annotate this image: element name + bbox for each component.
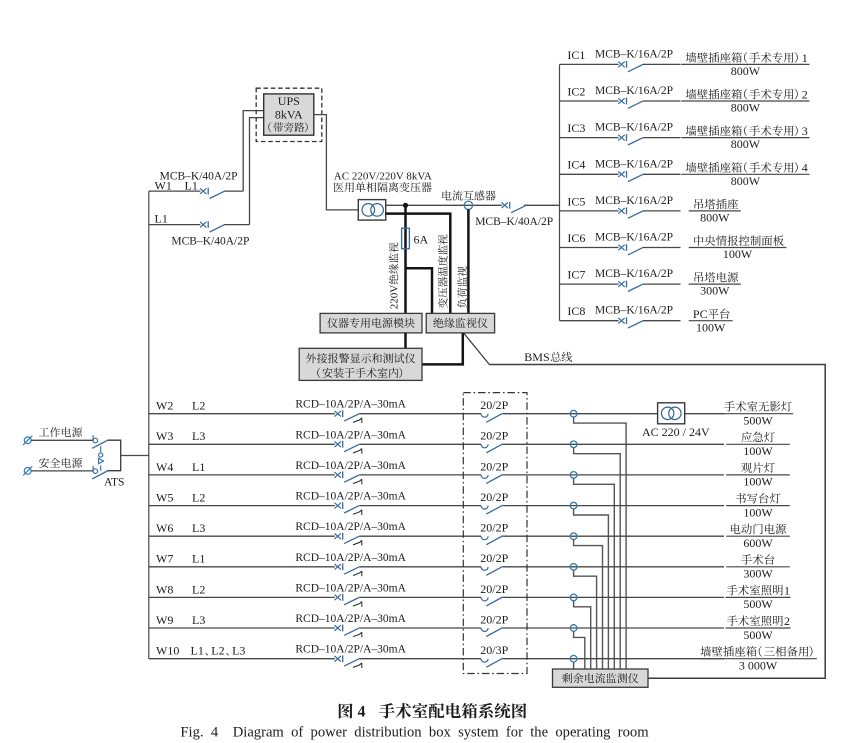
svg-text:AC 220 / 24V: AC 220 / 24V <box>642 425 710 439</box>
breaker Q1 MCB-K/40A/2P on W1 <box>200 188 225 199</box>
label RCD-10A/2P/A-30mA (W10) <box>295 644 406 656</box>
label IC8 <box>567 304 585 318</box>
label 安全电源 <box>39 458 82 468</box>
label W6 <box>156 521 173 535</box>
terminal node W7 <box>570 564 577 571</box>
wire W3 row <box>149 443 724 445</box>
svg-text:RCD–10A/2P/A–30mA: RCD–10A/2P/A–30mA <box>295 521 406 533</box>
terminal node W9 <box>570 625 577 632</box>
wire W6 row <box>149 535 724 537</box>
junction node on 220V feed <box>403 203 408 208</box>
wire W9 row <box>149 627 724 629</box>
label IC1 <box>567 48 585 62</box>
label RCD-10A/2P/A-30mA (W3) <box>295 429 406 441</box>
load label IC2 墙壁插座箱（手术专用）2 <box>686 87 808 101</box>
svg-text:6A: 6A <box>414 233 429 247</box>
wire load underline W8 <box>726 596 791 598</box>
wire load underline W2 <box>723 413 793 415</box>
switch W4 20/2P <box>481 475 503 484</box>
svg-text:RCD–10A/2P/A–30mA: RCD–10A/2P/A–30mA <box>295 491 406 503</box>
label phase L2 (W8) <box>192 582 205 596</box>
label AC 220 / 24V <box>642 425 710 439</box>
wire insulation-monitor tap to monitor box <box>406 268 433 313</box>
svg-text:W2: W2 <box>156 399 173 413</box>
label 20/2P (W3) <box>480 429 508 443</box>
switch ATS changeover body <box>108 440 121 471</box>
label 6A <box>414 233 429 247</box>
load label W4 观片灯 <box>741 462 774 472</box>
svg-text:20/3P: 20/3P <box>480 643 508 657</box>
label RCD-10A/2P/A-30mA (W7) <box>295 552 406 564</box>
svg-text:L2: L2 <box>192 491 205 505</box>
value label 800W (IC3) <box>731 137 761 151</box>
load label W7 手术台 <box>741 554 774 564</box>
svg-text:20/2P: 20/2P <box>480 612 508 626</box>
svg-text:RCD–10A/2P/A–30mA: RCD–10A/2P/A–30mA <box>295 644 406 656</box>
wire L1 branch from bus to UPS riser <box>149 118 264 225</box>
svg-text:RCD–10A/2P/A–30mA: RCD–10A/2P/A–30mA <box>295 613 406 625</box>
svg-text:300W: 300W <box>700 284 730 298</box>
svg-text:800W: 800W <box>700 211 730 225</box>
svg-text:100W: 100W <box>696 320 726 334</box>
wire IC7 row <box>560 283 681 285</box>
wire load underline IC1 <box>681 63 809 65</box>
transformer T2 winding circles <box>662 407 682 419</box>
label W2 <box>156 399 173 413</box>
breaker Q2 MCB-K/40A/2P on L1 <box>200 221 225 232</box>
svg-text:MCB–K/16A/2P: MCB–K/16A/2P <box>595 85 673 97</box>
load label IC1 墙壁插座箱（手术专用）1 <box>686 51 808 65</box>
wire ATS output to W bus <box>121 455 149 457</box>
svg-text:20/2P: 20/2P <box>480 582 508 596</box>
wire main 220V feed from transformer to IC bus <box>386 204 560 206</box>
wire W10 to residual current monitor <box>573 662 575 669</box>
label L1 lower branch <box>155 211 168 225</box>
wire transformer temperature monitor line <box>386 214 451 314</box>
switch W10 20/3P <box>481 658 503 667</box>
svg-text:L1: L1 <box>192 460 205 474</box>
svg-text:RCD–10A/2P/A–30mA: RCD–10A/2P/A–30mA <box>295 460 406 472</box>
label RCD-10A/2P/A-30mA (W9) <box>295 613 406 625</box>
boundary dash-dot box of 20/2P switches <box>463 393 527 674</box>
svg-text:IC1: IC1 <box>567 48 585 62</box>
value label 800W (IC1) <box>731 64 761 78</box>
svg-text:100W: 100W <box>743 444 773 458</box>
load label IC8 PC平台 <box>693 307 730 321</box>
wire IC2 row <box>560 100 681 102</box>
label BMS总线 <box>524 350 572 364</box>
svg-text:L1: L1 <box>192 552 205 566</box>
load label W8 手术室照明1 <box>727 583 790 597</box>
svg-text:W6: W6 <box>156 521 173 535</box>
svg-text:W7: W7 <box>156 552 173 566</box>
value label 500W (W8) <box>743 597 773 611</box>
svg-text:RCD–10A/2P/A–30mA: RCD–10A/2P/A–30mA <box>295 582 406 594</box>
svg-text:W8: W8 <box>156 582 173 596</box>
svg-text:L2: L2 <box>192 399 205 413</box>
value label 100W (W4) <box>743 475 773 489</box>
wire load underline W10 <box>699 658 817 660</box>
svg-text:Fig. 4 Diagram of power: Fig. 4 Diagram of power distribution box… <box>180 724 649 740</box>
breaker Q3 MCB-K/40A/2P main <box>502 202 527 213</box>
svg-text:MCB–K/16A/2P: MCB–K/16A/2P <box>595 232 673 244</box>
switch W5 20/2P <box>481 505 503 514</box>
label 20/2P (W2) <box>480 398 508 412</box>
label W3 <box>156 429 173 443</box>
label MCB-K/16A/2P (IC5) <box>595 195 673 207</box>
label MCB-K/16A/2P (IC3) <box>595 122 673 134</box>
svg-text:3: 3 <box>802 124 808 138</box>
breaker RCD W4 RCD-10A/2P/A-30mA <box>335 472 362 485</box>
label phase L1 (W4) <box>192 460 205 474</box>
value label 100W (W3) <box>743 444 773 458</box>
svg-text:600W: 600W <box>743 536 773 550</box>
load label W10 墙壁插座箱（三相备用） <box>701 646 813 657</box>
label 20/3P (W10) <box>480 643 508 657</box>
svg-text:L2: L2 <box>211 644 224 658</box>
wire W6 to residual current monitor <box>574 540 603 670</box>
svg-text:IC7: IC7 <box>567 268 585 282</box>
breaker IC8 MCB-K/16A/2P <box>618 317 643 328</box>
svg-text:L3: L3 <box>192 521 205 535</box>
caption 图 4 手术室配电箱系统图 <box>339 703 526 721</box>
breaker RCD W3 RCD-10A/2P/A-30mA <box>335 441 362 454</box>
load label W9 手术室照明2 <box>727 614 790 628</box>
breaker IC7 MCB-K/16A/2P <box>618 281 643 292</box>
value label 100W (IC6) <box>723 247 753 261</box>
label IC3 <box>567 121 585 135</box>
label W9 <box>156 613 173 627</box>
terminal node W6 <box>570 533 577 540</box>
svg-text:20/2P: 20/2P <box>480 551 508 565</box>
label 20/2P (W9) <box>480 612 508 626</box>
wire W7 row <box>149 566 724 568</box>
node IC distribution bus <box>559 64 561 320</box>
svg-text:W4: W4 <box>156 460 173 474</box>
box U4 外接报警显示和测试仪 <box>299 348 422 380</box>
breaker IC3 MCB-K/16A/2P <box>618 134 643 145</box>
terminal node W3 <box>570 441 577 448</box>
label W4 <box>156 460 173 474</box>
value label 800W (IC5) <box>700 211 730 225</box>
source 安全电源 terminal <box>23 466 32 475</box>
label MCB-K/16A/2P (IC8) <box>595 305 673 317</box>
load label IC6 中央情报控制面板 <box>694 235 784 246</box>
load label W6 电动门电源 <box>731 524 786 535</box>
switch W7 20/2P <box>481 566 503 575</box>
wire IC1 row <box>560 63 681 65</box>
svg-text:800W: 800W <box>731 101 761 115</box>
svg-text:MCB–K/40A/2P: MCB–K/40A/2P <box>475 216 553 228</box>
wire W2 row <box>149 413 724 415</box>
label MCB-K/16A/2P (IC1) <box>595 48 673 60</box>
svg-text:100W: 100W <box>743 475 773 489</box>
label 电流互感器 <box>442 190 495 200</box>
svg-text:1: 1 <box>802 51 808 65</box>
label phase L2 (W5) <box>192 491 205 505</box>
transformer T2 box (AC 220/24V) <box>658 403 685 424</box>
svg-text:UPS: UPS <box>278 94 300 108</box>
wire W4 row <box>149 474 724 476</box>
value label 500W (W2) <box>743 414 773 428</box>
svg-text:W1: W1 <box>155 179 172 193</box>
breaker IC5 MCB-K/16A/2P <box>618 208 643 219</box>
value label 300W (IC7) <box>700 284 730 298</box>
label MCB-K/40A/2P (W1) <box>160 170 238 182</box>
wire 220V monitor line with 6A fuse to power module <box>404 205 407 313</box>
svg-text:MCB–K/16A/2P: MCB–K/16A/2P <box>595 158 673 170</box>
wire load underline W4 <box>726 474 790 476</box>
value label 600W (W6) <box>743 536 773 550</box>
load label W5 书写台灯 <box>736 493 781 503</box>
caption Fig. 4 <box>180 724 649 740</box>
switch W3 20/2P <box>481 444 503 453</box>
node W distribution bus <box>148 191 150 659</box>
svg-text:L2: L2 <box>192 582 205 596</box>
load label IC7 吊塔电源 <box>695 272 739 282</box>
svg-text:300W: 300W <box>743 567 773 581</box>
svg-text:20/2P: 20/2P <box>480 490 508 504</box>
breaker RCD W10 RCD-10A/2P/A-30mA <box>335 655 362 668</box>
box U5 剩余电流监测仪 <box>553 669 649 687</box>
svg-text:W9: W9 <box>156 613 173 627</box>
label L1 phase of W1 <box>185 179 198 193</box>
svg-text:4: 4 <box>358 704 366 721</box>
svg-text:800W: 800W <box>731 137 761 151</box>
label IC4 <box>567 158 585 172</box>
wire load underline W7 <box>726 566 790 568</box>
svg-text:IC4: IC4 <box>567 158 585 172</box>
svg-text:2: 2 <box>802 87 808 101</box>
label IC7 <box>567 268 585 282</box>
svg-text:IC5: IC5 <box>567 194 585 208</box>
svg-text:L1: L1 <box>191 644 204 658</box>
transformer T1 winding circles <box>362 204 383 217</box>
svg-text:AC 220V/220V 8kVA: AC 220V/220V 8kVA <box>334 170 432 182</box>
svg-text:800W: 800W <box>731 64 761 78</box>
wire 安全电源 to ATS <box>31 470 93 472</box>
wire load underline IC7 <box>689 283 741 285</box>
wire W8 to residual current monitor <box>574 601 591 669</box>
svg-text:500W: 500W <box>743 628 773 642</box>
svg-text:L1: L1 <box>155 211 168 225</box>
wire W1 branch from bus to UPS riser <box>149 111 264 192</box>
svg-text:20/2P: 20/2P <box>480 521 508 535</box>
load label IC3 墙壁插座箱（手术专用）3 <box>686 124 808 138</box>
label W1 <box>155 179 172 193</box>
value label 800W (IC2) <box>731 101 761 115</box>
label W10 <box>156 644 179 658</box>
label RCD-10A/2P/A-30mA (W6) <box>295 521 406 533</box>
wire load underline IC5 <box>689 210 741 212</box>
svg-text:20/2P: 20/2P <box>480 429 508 443</box>
svg-text:100W: 100W <box>743 505 773 519</box>
terminal node W8 <box>570 594 577 601</box>
label UPS 8kVA (with bypass) <box>268 94 307 132</box>
breaker IC4 MCB-K/16A/2P <box>618 171 643 182</box>
svg-text:PC: PC <box>693 307 708 321</box>
wire BMS bus from U3 to residual current monitor <box>464 334 825 679</box>
svg-text:800W: 800W <box>731 174 761 188</box>
label RCD-10A/2P/A-30mA (W2) <box>295 399 406 411</box>
wire 工作电源 to ATS <box>31 439 93 441</box>
wire U3 to alarm box <box>421 333 463 364</box>
value label 500W (W9) <box>743 628 773 642</box>
label AC 220V/220V 8kVA 医用单相隔离变压器 <box>334 170 432 192</box>
contact ATS lower (安全电源) <box>92 466 108 479</box>
label MCB-K/16A/2P (IC2) <box>595 85 673 97</box>
svg-text:100W: 100W <box>723 247 753 261</box>
switch ATS linkage <box>99 446 104 471</box>
svg-text:W3: W3 <box>156 429 173 443</box>
load label W3 应急灯 <box>741 432 774 443</box>
label RCD-10A/2P/A-30mA (W4) <box>295 460 406 472</box>
wire load underline IC8 <box>689 320 733 322</box>
label IC2 <box>567 84 585 98</box>
svg-text:500W: 500W <box>743 597 773 611</box>
wire W2 to residual current monitor <box>574 417 627 669</box>
UPS U1 dashed bypass boundary <box>256 88 322 141</box>
svg-text:MCB–K/16A/2P: MCB–K/16A/2P <box>595 268 673 280</box>
load label IC5 吊塔插座 <box>695 199 739 210</box>
wire U2 to alarm box <box>404 333 407 348</box>
label IC6 <box>567 231 585 245</box>
svg-text:IC8: IC8 <box>567 304 585 318</box>
source 工作电源 terminal <box>23 436 32 445</box>
svg-text:W10: W10 <box>156 644 179 658</box>
label 负荷监视 (rotated) <box>457 266 467 308</box>
wire W4 to residual current monitor <box>574 478 615 669</box>
label W8 <box>156 582 173 596</box>
value label 800W (IC4) <box>731 174 761 188</box>
terminal node W5 <box>570 502 577 509</box>
svg-text:2: 2 <box>784 614 790 628</box>
label W5 <box>156 491 173 505</box>
wire W5 row <box>149 505 724 507</box>
UPS U1 body box <box>264 94 314 135</box>
svg-text:4: 4 <box>802 161 808 175</box>
label phase L1 (W7) <box>192 552 205 566</box>
svg-text:RCD–10A/2P/A–30mA: RCD–10A/2P/A–30mA <box>295 399 406 411</box>
wire IC4 row <box>560 173 681 175</box>
wire load underline W5 <box>726 505 790 507</box>
breaker RCD W2 RCD-10A/2P/A-30mA <box>335 410 362 423</box>
switch W6 20/2P <box>481 536 503 545</box>
svg-text:MCB–K/16A/2P: MCB–K/16A/2P <box>595 48 673 60</box>
label 20/2P (W7) <box>480 551 508 565</box>
wire load monitor line from CT1 <box>467 209 470 313</box>
label 变压器温度监视 (rotated) <box>438 235 448 309</box>
terminal node W10 <box>570 655 577 662</box>
label RCD-10A/2P/A-30mA (W5) <box>295 491 406 503</box>
wire IC5 row <box>560 210 681 212</box>
wire load underline W3 <box>726 443 790 445</box>
svg-text:1: 1 <box>784 583 790 597</box>
svg-text:220V: 220V <box>389 285 401 310</box>
load label IC4 墙壁插座箱（手术专用）4 <box>686 161 808 175</box>
label phases L1、L2、L3 (W10) <box>191 644 246 658</box>
wire W9 to residual current monitor <box>574 631 585 669</box>
current transformer CT1 电流互感器 <box>464 201 472 209</box>
wire load underline IC6 <box>689 247 787 249</box>
svg-text:W5: W5 <box>156 491 173 505</box>
wire load underline IC4 <box>681 173 809 175</box>
breaker IC6 MCB-K/16A/2P <box>618 244 643 255</box>
breaker RCD W5 RCD-10A/2P/A-30mA <box>335 502 362 515</box>
switch W9 20/2P <box>481 628 503 637</box>
value label 100W (W5) <box>743 505 773 519</box>
wire IC3 row <box>560 137 681 139</box>
wire load underline IC3 <box>681 137 809 139</box>
svg-text:MCB–K/16A/2P: MCB–K/16A/2P <box>595 305 673 317</box>
wire W7 to residual current monitor <box>574 570 597 669</box>
svg-text:L3: L3 <box>192 429 205 443</box>
label MCB-K/16A/2P (IC6) <box>595 232 673 244</box>
label ATS <box>104 477 124 489</box>
label 20/2P (W6) <box>480 521 508 535</box>
wire UPS output to transformer input <box>314 115 359 210</box>
svg-text:IC3: IC3 <box>567 121 585 135</box>
label MCB-K/40A/2P (L1) <box>171 236 249 248</box>
breaker RCD W8 RCD-10A/2P/A-30mA <box>335 594 362 607</box>
label phase L2 (W2) <box>192 399 205 413</box>
value label 300W (W7) <box>743 567 773 581</box>
svg-text:RCD–10A/2P/A–30mA: RCD–10A/2P/A–30mA <box>295 552 406 564</box>
label MCB-K/16A/2P (IC7) <box>595 268 673 280</box>
label MCB-K/16A/2P (IC4) <box>595 158 673 170</box>
breaker IC2 MCB-K/16A/2P <box>618 98 643 109</box>
svg-text:IC6: IC6 <box>567 231 585 245</box>
value label 100W (IC8) <box>696 320 726 334</box>
svg-text:L3: L3 <box>232 644 245 658</box>
wire W8 row <box>149 596 724 598</box>
label phase L3 (W9) <box>192 613 205 627</box>
wire load underline W6 <box>726 535 790 537</box>
wire W10 row <box>149 658 724 660</box>
svg-text:BMS: BMS <box>524 350 549 364</box>
breaker IC1 MCB-K/16A/2P <box>618 61 643 72</box>
wire load underline IC2 <box>681 100 809 102</box>
box U2 仪器专用电源模块 <box>320 313 422 333</box>
svg-text:MCB–K/16A/2P: MCB–K/16A/2P <box>595 122 673 134</box>
load label W2 手术室无影灯 <box>724 401 792 412</box>
label MCB-K/40A/2P (main) <box>475 216 553 228</box>
breaker RCD W7 RCD-10A/2P/A-30mA <box>335 563 362 576</box>
svg-text:3 000W: 3 000W <box>739 659 778 673</box>
svg-text:500W: 500W <box>743 414 773 428</box>
svg-text:20/2P: 20/2P <box>480 398 508 412</box>
svg-text:L1: L1 <box>185 179 198 193</box>
label 20/2P (W5) <box>480 490 508 504</box>
svg-text:ATS: ATS <box>104 477 124 489</box>
svg-text:RCD–10A/2P/A–30mA: RCD–10A/2P/A–30mA <box>295 429 406 441</box>
wire load underline W9 <box>726 627 791 629</box>
switch W2 20/2P <box>481 413 503 422</box>
fuse F1 6A <box>402 228 410 249</box>
label 20/2P (W4) <box>480 459 508 473</box>
svg-text:8kVA: 8kVA <box>275 107 303 121</box>
wire IC6 row <box>560 247 681 249</box>
label 20/2P (W8) <box>480 582 508 596</box>
box U3 绝缘监视仪 <box>426 313 494 333</box>
terminal node W2 <box>570 410 577 417</box>
svg-text:20/2P: 20/2P <box>480 459 508 473</box>
label W7 <box>156 552 173 566</box>
switch W8 20/2P <box>481 597 503 606</box>
contact ATS upper (工作电源) <box>92 435 108 448</box>
value label 3 000W (W10) <box>739 659 778 673</box>
transformer T1 box <box>358 200 385 221</box>
